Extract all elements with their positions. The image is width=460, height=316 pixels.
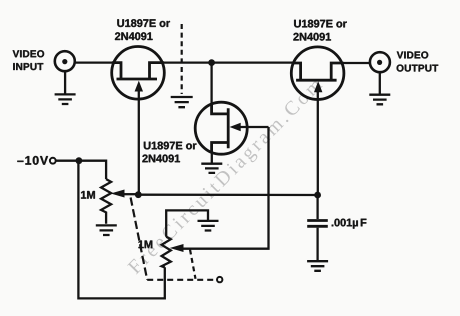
-10V terminal xyxy=(50,158,56,164)
label R2 value 1M xyxy=(138,241,152,249)
wire input connector ground stem xyxy=(64,71,66,93)
ground under dashed line xyxy=(171,97,193,107)
label VIDEO OUTPUT xyxy=(397,51,428,58)
transistor Q1 gate arrowhead xyxy=(135,82,142,91)
wire Q2 to output connector xyxy=(344,62,371,64)
output connector J2 xyxy=(370,52,390,72)
transistor Q3 circle xyxy=(195,102,247,154)
dashed line to ground xyxy=(181,24,183,94)
label -10V supply xyxy=(17,156,48,165)
ground under input connector xyxy=(55,94,76,104)
label C1 value .001uF xyxy=(332,219,358,229)
label Q2 type xyxy=(294,20,347,28)
ground under capacitor xyxy=(307,261,328,271)
output connector center pin xyxy=(377,60,382,65)
wire Q3 source to ground xyxy=(211,152,213,163)
transistor Q1 body xyxy=(112,63,164,79)
potentiometer R1 wiper arrowhead xyxy=(113,190,125,197)
dashed gang link from R2 wiper xyxy=(190,250,196,279)
ground under R1 xyxy=(96,225,117,235)
wire -10V to R1 top xyxy=(56,161,106,179)
transistor Q1 gate lead xyxy=(138,88,140,195)
transistor Q2 gate arrowhead xyxy=(315,83,322,92)
transistor Q2 gate lead xyxy=(317,89,319,195)
label VIDEO INPUT xyxy=(13,50,44,57)
ground right of R2 xyxy=(198,221,219,231)
label Q3 type xyxy=(144,142,197,150)
capacitor C1 bottom lead xyxy=(316,228,318,261)
capacitor C1 plates xyxy=(307,221,328,227)
potentiometer R2 wiper arrowhead xyxy=(172,245,184,252)
potentiometer R1 zigzag xyxy=(101,179,111,224)
dashed gang link from R1 wiper xyxy=(131,198,148,280)
wire R1 wiper to Q2 gate xyxy=(138,194,317,197)
capacitor C1 top lead xyxy=(316,195,318,219)
watermark FreeCircuitDiagram.Com xyxy=(127,77,326,278)
wire Q1 to Q2 xyxy=(162,61,293,63)
transistor Q1 circle xyxy=(112,47,165,100)
wire R2 top to ground xyxy=(166,210,208,236)
transistor Q3 gate arrowhead xyxy=(231,124,240,131)
ground under output connector xyxy=(369,95,390,105)
label Q1 type xyxy=(117,19,170,27)
node junction R1 wiper / Q1 gate xyxy=(135,191,142,198)
transistor Q2 body xyxy=(292,63,344,80)
transistor Q2 circle xyxy=(291,47,344,100)
label R1 value 1M xyxy=(81,191,95,199)
wire junction to Q3 drain xyxy=(210,63,212,114)
potentiometer R1 wiper lead xyxy=(123,193,138,195)
node junction -10V xyxy=(76,157,83,164)
node junction Q2 gate / capacitor xyxy=(314,192,321,199)
input connector center pin xyxy=(62,59,67,64)
wire input connector to Q1 xyxy=(76,61,114,63)
control terminal xyxy=(217,277,222,282)
transistor Q3 gate lead xyxy=(240,126,269,128)
output connector ground stem xyxy=(379,72,381,94)
ground under Q3 xyxy=(201,164,222,173)
transistor Q3 body xyxy=(212,104,229,152)
wire Q3 gate down to R2 wiper xyxy=(182,127,269,249)
input connector J1 xyxy=(55,51,75,71)
potentiometer R2 zigzag xyxy=(162,237,171,268)
node junction top xyxy=(208,59,215,66)
dashed gang link bottom horizontal xyxy=(147,279,216,281)
wire -10V junction down to bottom rail and R2 bottom xyxy=(78,161,164,299)
